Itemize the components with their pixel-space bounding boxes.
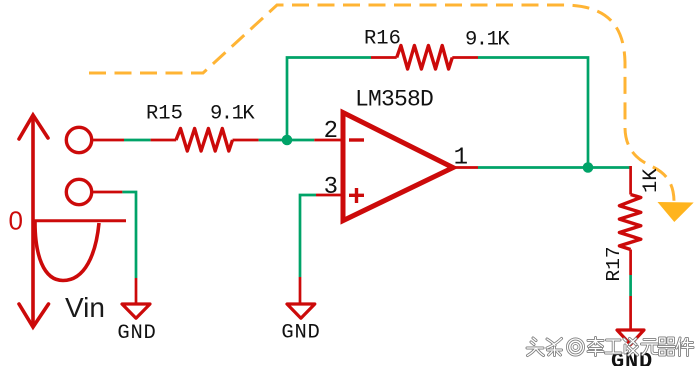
svg-text:GND: GND xyxy=(281,322,320,345)
wire feedback up and across (teal) xyxy=(287,58,371,141)
svg-text:9.1K: 9.1K xyxy=(210,103,255,126)
node junction at pin2 xyxy=(282,135,293,146)
wire R15 lead right xyxy=(233,139,259,142)
wire R16 lead left xyxy=(371,56,397,59)
svg-text:3: 3 xyxy=(324,174,338,201)
wire R16 to output node (teal) xyxy=(478,58,588,168)
arrowhead up xyxy=(19,115,48,139)
input terminal circle 1 xyxy=(66,127,91,152)
wire red to gnd1 xyxy=(135,278,138,304)
Vin source axis vertical arrow xyxy=(31,115,35,327)
resistor R17 xyxy=(619,195,640,250)
svg-text:R16: R16 xyxy=(364,28,401,51)
resistor R16 xyxy=(397,46,453,70)
wire output corner down to R17 xyxy=(629,166,632,195)
wire output (teal) xyxy=(478,166,631,169)
wire R17 red to gnd xyxy=(629,296,632,330)
wire R17 teal segment xyxy=(629,275,632,296)
svg-text:LM358D: LM358D xyxy=(355,87,433,113)
svg-text:R15: R15 xyxy=(146,103,183,126)
wire circle1 to R15 (teal part) xyxy=(124,139,151,142)
wire circle2 red stub xyxy=(93,191,123,194)
input terminal circle 2 xyxy=(66,179,91,204)
svg-text:2: 2 xyxy=(324,118,338,145)
wire red to gnd2 xyxy=(299,277,302,304)
ground GND2 xyxy=(287,304,315,318)
svg-text:1K: 1K xyxy=(640,168,663,193)
ground GND3 xyxy=(617,330,644,345)
zero axis line xyxy=(33,219,126,222)
wire pin3 to gnd (teal) xyxy=(300,195,316,277)
wire red stub circle1 xyxy=(93,139,125,142)
op-amp U1 triangle xyxy=(343,113,453,221)
wire pin3 red stub xyxy=(316,194,343,197)
node junction output xyxy=(583,162,594,173)
svg-text:0: 0 xyxy=(9,206,23,236)
wire R17 lead down red xyxy=(629,250,632,276)
svg-text:Vin: Vin xyxy=(65,292,105,323)
svg-text:9.1K: 9.1K xyxy=(465,29,510,52)
pin 1 red stub xyxy=(453,166,478,169)
op-amp plus sign xyxy=(349,188,364,203)
orange arrowhead xyxy=(658,202,694,222)
wire circle2 to gnd (teal) xyxy=(122,192,136,278)
pin 2 red stub xyxy=(314,139,343,142)
wire R15 to opamp pin2 (teal) xyxy=(259,139,315,142)
svg-text:R17: R17 xyxy=(603,246,625,281)
arrowhead down xyxy=(19,304,49,327)
dashed feedback highlight curve xyxy=(89,5,674,202)
op-amp minus sign xyxy=(349,138,364,141)
sine half wave xyxy=(35,222,99,281)
wire R16 lead right xyxy=(452,56,478,59)
svg-text:GND: GND xyxy=(117,322,156,345)
resistor R15 xyxy=(176,129,233,152)
svg-text:1: 1 xyxy=(454,145,468,172)
wire R15 lead left xyxy=(151,139,177,142)
ground GND1 xyxy=(122,304,150,318)
